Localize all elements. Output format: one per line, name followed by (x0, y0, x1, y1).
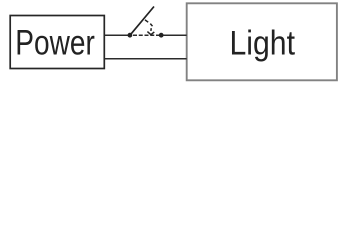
bottom wire between boxes (104, 58, 186, 60)
light box (187, 3, 337, 80)
dashed closing-motion arc dash 2 (150, 24, 152, 27)
wire from power box to switch left contact (104, 34, 128, 36)
power source box (10, 16, 104, 69)
dashed closing-motion arc dash 3 (150, 28, 152, 31)
dashed wire between contacts (closed position) (133, 34, 159, 36)
dashed closing-motion arc dash 1 (145, 20, 148, 22)
wire from switch right contact to light box (163, 34, 187, 36)
switch left contact dot (127, 33, 132, 38)
switch right contact dot (159, 33, 164, 38)
svg-text:Power: Power (15, 23, 95, 62)
switch lever (open) (130, 7, 154, 36)
svg-text:Light: Light (230, 24, 296, 62)
arrowhead of closing-motion arc (147, 32, 154, 35)
